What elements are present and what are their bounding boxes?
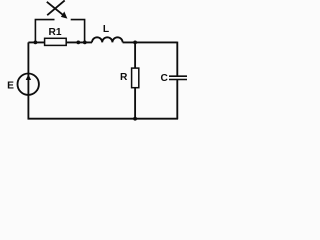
wire middle branch (R branch): [134, 42, 136, 118]
node dot (right of R1): [76, 41, 80, 45]
source E circle: [18, 74, 39, 95]
wire top left segment: [28, 41, 92, 43]
node dot (top of R branch): [133, 41, 137, 45]
wire right (upper, above capacitor): [176, 42, 178, 76]
wire bottom: [28, 118, 179, 120]
source E arrow: [26, 74, 31, 80]
node dot (switch branch return): [83, 41, 87, 45]
switch S cross stroke: [47, 0, 64, 15]
node dot (bottom of R branch): [133, 117, 137, 121]
svg-text:L: L: [103, 24, 109, 35]
svg-text:R: R: [120, 72, 128, 83]
node dot (left of R1, switch branch tap): [34, 41, 38, 45]
wire right (lower, below capacitor): [176, 80, 178, 119]
wire top right segment: [123, 41, 178, 43]
inductor L: [92, 37, 123, 42]
svg-text:C: C: [161, 73, 169, 84]
resistor R1 body: [45, 38, 67, 45]
wire switch bypass left: [35, 20, 54, 43]
resistor R body: [132, 68, 139, 88]
capacitor C plates: [169, 76, 187, 79]
wire switch bypass right: [71, 20, 85, 43]
switch S blade stroke with arrow: [47, 2, 63, 15]
wire left: [27, 42, 29, 119]
svg-text:R1: R1: [48, 27, 61, 38]
svg-text:E: E: [7, 81, 14, 92]
